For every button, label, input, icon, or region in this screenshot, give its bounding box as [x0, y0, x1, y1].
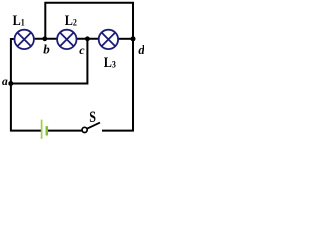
svg-text:L2: L2 [65, 12, 77, 28]
svg-text:S: S [89, 110, 96, 127]
svg-text:L1: L1 [13, 12, 25, 28]
svg-text:d: d [138, 43, 144, 57]
node b [42, 36, 47, 41]
node d [131, 36, 136, 41]
wire L1 left stub, left rail down through a, bottom rail to battery [11, 39, 41, 131]
svg-text:L3: L3 [104, 54, 117, 70]
battery negative plate [46, 126, 49, 135]
switch S blade [87, 123, 100, 129]
battery positive plate [41, 120, 43, 139]
lamp L2 [57, 30, 76, 49]
node c [85, 36, 90, 41]
wire a to c branch [11, 39, 88, 84]
node a [8, 81, 13, 86]
svg-text:a: a [2, 76, 8, 88]
wire b up to top rail, across to right rail, down to bottom-right, left to switch [45, 3, 133, 131]
switch S pivot [82, 127, 87, 132]
lamp L3 [99, 30, 118, 49]
svg-text:c: c [79, 43, 85, 57]
wire L1 to b to L2 [35, 38, 57, 40]
wire L2 to c to L3 [77, 38, 99, 40]
wire battery to switch [48, 130, 82, 132]
svg-text:b: b [43, 42, 50, 57]
wire L3 to d [118, 38, 133, 40]
lamp L1 [15, 30, 34, 49]
